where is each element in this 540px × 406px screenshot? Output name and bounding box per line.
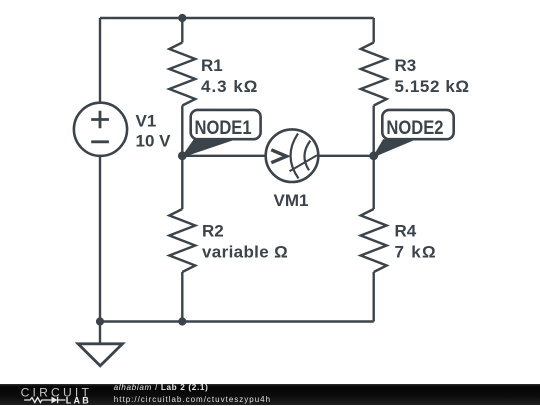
wire voltmeter to NODE2 [318, 155, 374, 157]
svg-text:LAB: LAB [66, 395, 91, 405]
svg-text:R2: R2 [202, 221, 224, 240]
svg-text:NODE1: NODE1 [195, 117, 252, 139]
footer url text [114, 396, 271, 404]
node NODE1 dot [178, 151, 187, 160]
svg-text:R3: R3 [395, 56, 417, 75]
wire middle rail mid [181, 106, 183, 210]
label R4 7 kOhm [395, 221, 437, 261]
label R1 4.3 kOhm [201, 56, 258, 96]
resistor R3 [361, 43, 387, 106]
NODE2 flag pointer [374, 140, 413, 156]
CircuitLab logo [0, 384, 110, 406]
footer bar [0, 384, 540, 406]
svg-text:7 kΩ: 7 kΩ [395, 243, 437, 262]
svg-text:R4: R4 [395, 221, 417, 240]
svg-text:V1: V1 [136, 112, 157, 131]
wire right rail mid [373, 106, 375, 210]
label R3 5.152 kOhm [395, 56, 470, 96]
resistor R4 [361, 209, 387, 272]
node junction dot bottom left [96, 317, 104, 325]
svg-text:5.152 kΩ: 5.152 kΩ [395, 77, 470, 96]
svg-text:R1: R1 [201, 56, 223, 75]
voltmeter VM1 [266, 129, 319, 182]
resistor R1 [169, 43, 195, 106]
resistor R2 [169, 209, 195, 272]
wire right rail top [373, 18, 375, 43]
wire left rail lower [99, 156, 101, 322]
footer title text [114, 384, 209, 392]
wire left rail upper [99, 18, 101, 103]
wire top rail [100, 17, 374, 19]
label V1 10 V [136, 112, 172, 151]
voltage source V1 [74, 103, 127, 156]
ground [78, 322, 123, 366]
wire middle rail top [181, 18, 183, 43]
node NODE2 dot [369, 151, 378, 160]
wire middle rail bottom [181, 272, 183, 322]
svg-text:NODE2: NODE2 [386, 117, 443, 139]
wire right rail bottom [373, 272, 375, 322]
NODE1 flag box [191, 110, 261, 139]
svg-text:10 V: 10 V [136, 132, 172, 151]
NODE1 flag pointer [183, 140, 234, 157]
NODE2 flag box [382, 110, 453, 139]
svg-text:VM1: VM1 [274, 191, 309, 210]
wire bottom rail [100, 320, 374, 322]
svg-text:variable Ω: variable Ω [202, 243, 288, 262]
wire NODE1 to voltmeter [182, 155, 266, 157]
node junction dot bottom middle [178, 317, 186, 325]
svg-text:4.3 kΩ: 4.3 kΩ [201, 77, 258, 96]
node junction dot top [178, 14, 186, 22]
label R2 variable Ohm [202, 221, 288, 261]
